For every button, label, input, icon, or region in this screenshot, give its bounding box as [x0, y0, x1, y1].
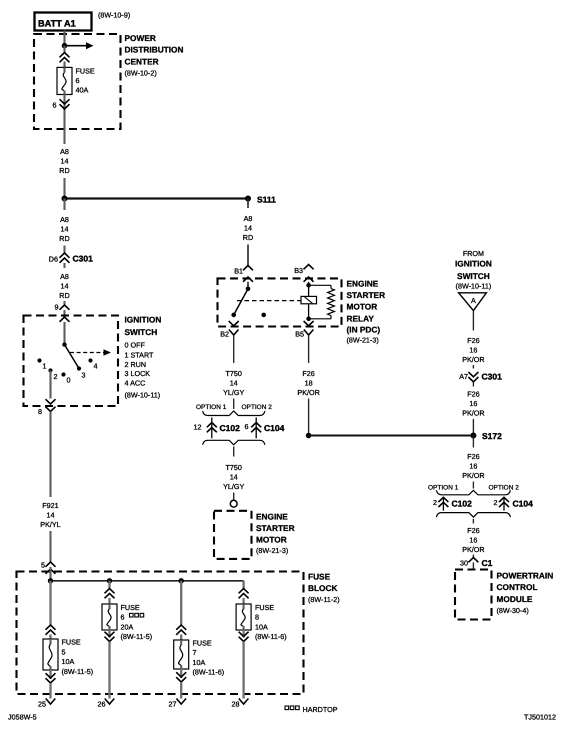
svg-text:IGNITION: IGNITION [455, 258, 492, 268]
svg-text:5: 5 [62, 647, 66, 656]
svg-text:BLOCK: BLOCK [308, 583, 338, 593]
svg-text:8: 8 [255, 613, 259, 622]
svg-text:B2: B2 [220, 329, 229, 338]
svg-text:1 START: 1 START [125, 351, 154, 360]
svg-text:16: 16 [469, 462, 477, 471]
svg-text:OPTION 1: OPTION 1 [428, 485, 459, 492]
svg-text:F26: F26 [302, 369, 314, 378]
svg-text:(8W-11-2): (8W-11-2) [308, 595, 340, 604]
svg-text:PK/OR: PK/OR [462, 545, 484, 554]
svg-text:S172: S172 [482, 431, 502, 441]
svg-text:SWITCH: SWITCH [457, 271, 490, 281]
svg-text:6: 6 [53, 101, 57, 110]
svg-text:PK/YL: PK/YL [40, 520, 60, 529]
svg-text:C104: C104 [264, 423, 285, 433]
svg-text:(8W-10-9): (8W-10-9) [98, 11, 130, 20]
svg-text:2: 2 [433, 498, 437, 507]
svg-text:(8W-11-6): (8W-11-6) [193, 668, 225, 677]
svg-text:ENGINE: ENGINE [256, 512, 288, 522]
svg-text:SWITCH: SWITCH [125, 327, 158, 337]
svg-text:A: A [471, 296, 476, 305]
svg-text:C102: C102 [452, 499, 473, 509]
svg-text:14: 14 [244, 224, 252, 233]
svg-text:YL/GY: YL/GY [223, 388, 244, 397]
svg-text:12: 12 [194, 423, 202, 432]
svg-text:6: 6 [245, 422, 249, 431]
svg-text:26: 26 [98, 700, 106, 709]
svg-text:FUSE: FUSE [193, 638, 212, 647]
svg-text:F26: F26 [467, 336, 479, 345]
svg-text:RD: RD [59, 166, 69, 175]
svg-text:10A: 10A [255, 622, 268, 631]
svg-text:(8W-10-2): (8W-10-2) [125, 69, 157, 78]
svg-text:YL/GY: YL/GY [223, 482, 244, 491]
svg-text:STARTER: STARTER [256, 523, 295, 533]
svg-text:F26: F26 [467, 526, 479, 535]
svg-text:BATT A1: BATT A1 [38, 19, 76, 29]
svg-text:IGNITION: IGNITION [125, 315, 162, 325]
svg-text:(8W-11-6): (8W-11-6) [255, 632, 287, 641]
svg-text:S111: S111 [257, 194, 276, 204]
svg-text:40A: 40A [76, 86, 89, 95]
svg-text:C102: C102 [220, 423, 241, 433]
svg-text:F921: F921 [42, 501, 58, 510]
svg-text:B5: B5 [295, 329, 304, 338]
svg-text:10A: 10A [193, 658, 206, 667]
svg-text:FUSE: FUSE [308, 572, 331, 582]
svg-text:B1: B1 [234, 266, 243, 275]
svg-text:30: 30 [460, 559, 468, 568]
svg-text:RELAY: RELAY [347, 313, 375, 323]
svg-text:FUSE: FUSE [76, 67, 95, 76]
svg-text:HARDTOP: HARDTOP [303, 705, 338, 714]
svg-text:FUSE: FUSE [121, 603, 140, 612]
svg-text:OPTION 2: OPTION 2 [242, 404, 273, 411]
svg-text:14: 14 [230, 379, 238, 388]
svg-text:C1: C1 [482, 558, 493, 568]
svg-text:14: 14 [61, 157, 69, 166]
svg-text:3 LOCK: 3 LOCK [125, 369, 151, 378]
svg-text:FUSE: FUSE [255, 603, 274, 612]
svg-text:STARTER: STARTER [347, 290, 386, 300]
svg-text:(8W-30-4): (8W-30-4) [497, 606, 529, 615]
svg-text:(IN PDC): (IN PDC) [347, 324, 381, 334]
svg-text:2: 2 [54, 372, 58, 381]
svg-text:3: 3 [82, 371, 86, 380]
svg-text:PK/OR: PK/OR [462, 471, 484, 480]
svg-text:(8W-10-11): (8W-10-11) [456, 281, 492, 290]
svg-text:(8W-11-5): (8W-11-5) [121, 632, 153, 641]
svg-text:A7: A7 [459, 372, 468, 381]
svg-text:PK/OR: PK/OR [462, 355, 484, 364]
svg-text:10A: 10A [62, 657, 75, 666]
svg-text:T750: T750 [226, 463, 242, 472]
svg-text:(8W-21-3): (8W-21-3) [347, 336, 379, 345]
svg-text:A8: A8 [244, 214, 253, 223]
svg-text:F26: F26 [467, 452, 479, 461]
svg-text:B3: B3 [294, 266, 303, 275]
svg-text:0 OFF: 0 OFF [125, 340, 146, 349]
svg-text:C301: C301 [73, 254, 94, 264]
svg-text:PK/OR: PK/OR [297, 388, 319, 397]
svg-text:2 RUN: 2 RUN [125, 360, 147, 369]
svg-text:CONTROL: CONTROL [497, 582, 538, 592]
svg-text:14: 14 [61, 282, 69, 291]
svg-text:T750: T750 [226, 369, 242, 378]
svg-text:(8W-10-11): (8W-10-11) [125, 390, 161, 399]
svg-text:5: 5 [41, 561, 45, 570]
svg-text:POWER: POWER [125, 33, 156, 43]
svg-text:MOTOR: MOTOR [347, 302, 378, 312]
svg-text:14: 14 [230, 473, 238, 482]
svg-text:C104: C104 [513, 499, 534, 509]
svg-text:2: 2 [494, 498, 498, 507]
svg-text:PK/OR: PK/OR [462, 409, 484, 418]
svg-text:27: 27 [169, 700, 177, 709]
svg-text:14: 14 [61, 225, 69, 234]
svg-text:16: 16 [469, 346, 477, 355]
svg-text:RD: RD [59, 291, 69, 300]
svg-text:7: 7 [193, 648, 197, 657]
svg-text:6: 6 [76, 76, 80, 85]
svg-text:A8: A8 [60, 147, 69, 156]
svg-text:MOTOR: MOTOR [256, 535, 287, 545]
svg-text:CENTER: CENTER [125, 57, 159, 67]
svg-text:TJ501012: TJ501012 [524, 713, 556, 722]
svg-text:C301: C301 [482, 372, 503, 382]
svg-text:18: 18 [305, 379, 313, 388]
svg-text:A8: A8 [60, 215, 69, 224]
svg-text:FUSE: FUSE [62, 638, 81, 647]
svg-text:1: 1 [43, 362, 47, 371]
svg-text:A8: A8 [60, 272, 69, 281]
svg-text:20A: 20A [121, 622, 134, 631]
svg-text:(8W-11-5): (8W-11-5) [62, 667, 94, 676]
svg-text:14: 14 [47, 511, 55, 520]
svg-text:0: 0 [67, 376, 71, 385]
svg-text:FROM: FROM [463, 249, 484, 258]
svg-text:25: 25 [38, 700, 46, 709]
svg-text:16: 16 [469, 535, 477, 544]
svg-text:MODULE: MODULE [497, 594, 533, 604]
svg-text:RD: RD [243, 233, 253, 242]
svg-text:8: 8 [38, 407, 42, 416]
svg-text:(8W-21-3): (8W-21-3) [256, 546, 288, 555]
svg-text:RD: RD [59, 234, 69, 243]
svg-text:16: 16 [469, 399, 477, 408]
svg-text:4 ACC: 4 ACC [125, 379, 146, 388]
svg-text:OPTION 2: OPTION 2 [489, 485, 520, 492]
svg-text:POWERTRAIN: POWERTRAIN [497, 570, 554, 580]
svg-text:F26: F26 [467, 390, 479, 399]
svg-text:DISTRIBUTION: DISTRIBUTION [125, 45, 184, 55]
svg-text:D6: D6 [49, 255, 58, 264]
svg-text:J058W-5: J058W-5 [8, 713, 37, 722]
svg-text:4: 4 [94, 362, 98, 371]
svg-text:28: 28 [232, 700, 240, 709]
svg-text:ENGINE: ENGINE [347, 279, 379, 289]
svg-text:9: 9 [55, 303, 59, 312]
svg-text:OPTION 1: OPTION 1 [196, 404, 227, 411]
svg-text:6: 6 [121, 613, 125, 622]
